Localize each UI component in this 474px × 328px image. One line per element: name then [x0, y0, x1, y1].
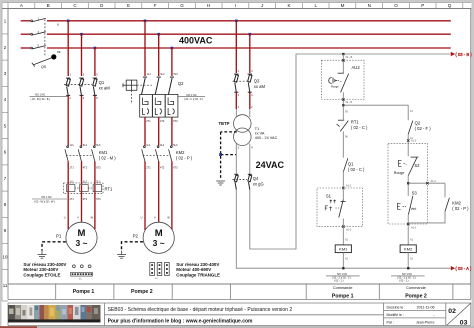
emergency stop AU2 dashed box — [321, 60, 364, 99]
svg-text:4T2: 4T2 — [160, 166, 165, 169]
svg-text:A1-1: A1-1 — [411, 227, 417, 230]
svg-text:Moteur 400-690V: Moteur 400-690V — [176, 267, 211, 272]
pump2 drop wires — [144, 21, 146, 76]
svg-text:( 03 - B ): ( 03 - B ) — [455, 52, 472, 57]
T1 primary drop wires — [235, 21, 237, 73]
T1 secondary wires — [235, 144, 237, 175]
S1 main contact — [342, 188, 344, 200]
svg-text:Sur réseau 230-400V: Sur réseau 230-400V — [176, 262, 219, 267]
svg-text:6T3: 6T3 — [173, 166, 178, 169]
svg-text:L: L — [315, 3, 318, 8]
bus L3 — [21, 47, 31, 49]
junction L3/pump1 — [94, 47, 97, 50]
motor1 note text — [23, 262, 66, 278]
svg-text:SEB03 - Schéma électrique de b: SEB03 - Schéma électrique de base - dépa… — [108, 307, 293, 313]
AU2 NC contact — [338, 73, 349, 92]
svg-text:02 - B: 02 - B — [346, 101, 353, 104]
svg-text:Rouge: Rouge — [331, 85, 339, 89]
svg-text:Jean-Pierre: Jean-Pierre — [416, 320, 435, 324]
motor2 note text — [176, 262, 220, 278]
motor M2 — [143, 222, 174, 253]
svg-text:400 - 24 VAC: 400 - 24 VAC — [255, 136, 278, 140]
svg-text:S3: S3 — [412, 190, 418, 195]
svg-text:( 02 - C ): ( 02 - C ) — [351, 125, 368, 130]
left ruler band — [1, 3, 3, 301]
svg-text:( 02 - F ): ( 02 - F ) — [415, 126, 432, 131]
svg-text:Q4: Q4 — [253, 176, 259, 181]
svg-text:2011-11-06: 2011-11-06 — [417, 305, 435, 309]
svg-text:T1: T1 — [255, 127, 259, 131]
KM1 coil cross-ref table — [337, 273, 347, 276]
pump1 wires Q1 to KM1 — [67, 95, 69, 145]
junction L3/pump2 — [171, 47, 174, 50]
svg-text:2T1: 2T1 — [70, 198, 75, 201]
junction L2/T1 — [249, 33, 252, 36]
contactor KM1 — [65, 146, 95, 162]
pump2 wires KM2 to motor — [144, 161, 146, 230]
terminal blocks motor2 — [150, 263, 169, 276]
svg-text:Q1: Q1 — [99, 80, 105, 85]
svg-text:Pompe 2: Pompe 2 — [405, 293, 427, 299]
bus L1 — [21, 20, 31, 22]
terminal strip motor1 — [71, 272, 93, 276]
title block grid — [8, 303, 471, 326]
svg-text:KM1: KM1 — [339, 247, 348, 252]
junction L1/T1 — [235, 20, 238, 23]
svg-text:Moteur 230-400V: Moteur 230-400V — [23, 267, 58, 272]
ground P1 — [38, 251, 47, 259]
top ruler band — [2, 2, 471, 4]
svg-text:KM1: KM1 — [99, 150, 108, 155]
svg-text:03: 03 — [460, 320, 468, 327]
svg-text:1L1: 1L1 — [146, 144, 151, 147]
svg-text:( 02 - M ): ( 02 - M ) — [99, 156, 117, 161]
P2 earth dashed wire — [122, 242, 144, 251]
svg-text:O: O — [394, 3, 398, 8]
fuse-switch Q3 — [234, 74, 252, 92]
svg-text:A1-2: A1-2 — [411, 140, 417, 143]
svg-text:A1-2: A1-2 — [431, 180, 437, 183]
svg-text:( 02 - C ): ( 02 - C ) — [348, 167, 365, 172]
svg-text:5L3: 5L3 — [174, 73, 179, 76]
svg-text:10: 10 — [3, 254, 8, 259]
svg-text:Pompe 2: Pompe 2 — [131, 289, 153, 295]
junction L1/pump1 — [67, 20, 70, 23]
svg-text:3 ~: 3 ~ — [153, 238, 165, 248]
svg-text:2T1: 2T1 — [70, 166, 75, 169]
svg-text:5L3: 5L3 — [96, 144, 101, 147]
pump1 wires KM1 to RT1 — [67, 161, 69, 184]
svg-text:AU2: AU2 — [352, 65, 361, 70]
wires Q3 to T1 — [235, 92, 237, 109]
svg-text:2T1: 2T1 — [146, 120, 151, 123]
Q2 trip actuator box — [123, 80, 137, 90]
svg-text:1L1: 1L1 — [70, 144, 75, 147]
svg-text:02: 02 — [448, 308, 456, 315]
svg-text:Pompe 1: Pompe 1 — [332, 293, 354, 299]
P1 earth dashed wire — [42, 242, 66, 251]
svg-text:( 03 - A ): ( 03 - A ) — [455, 266, 471, 271]
svg-text:4T2: 4T2 — [83, 198, 88, 201]
branch wire to rung2 — [343, 104, 408, 106]
junction bottom bus KM2 — [407, 267, 409, 269]
KM2 coil cross-ref table — [402, 273, 412, 276]
junction rung1/rung2 — [342, 104, 344, 106]
ground P2 — [117, 251, 126, 259]
svg-text:Couplage TRIANGLE: Couplage TRIANGLE — [176, 272, 220, 277]
svg-text:xx VA: xx VA — [255, 132, 265, 136]
junction S2/KM2 branch — [407, 182, 409, 184]
svg-text:( 02 - W )( 02 - W ): ( 02 - W )( 02 - W ) — [34, 200, 55, 203]
svg-text:3L2: 3L2 — [83, 181, 88, 184]
svg-text:Q: Q — [448, 3, 452, 8]
svg-text:xx aM: xx aM — [254, 84, 266, 89]
svg-text:Dessiné le :: Dessiné le : — [387, 305, 406, 309]
svg-text:A1-1: A1-1 — [346, 229, 352, 232]
motor M1 — [66, 222, 97, 253]
Q1 aux cross-ref table — [31, 94, 51, 101]
TBTP earthing dashed wires — [221, 131, 237, 133]
svg-text:Q2: Q2 — [415, 121, 421, 126]
disconnect switch QS — [31, 18, 52, 66]
svg-text:Q3: Q3 — [254, 79, 260, 84]
AU2 mushroom button icon — [329, 78, 338, 84]
star coupling terminals — [73, 265, 92, 268]
svg-text:RT1: RT1 — [351, 119, 360, 124]
svg-text:Commande: Commande — [406, 286, 426, 290]
junction L2/pump2 — [157, 33, 160, 36]
selector S1 dashed box — [317, 188, 362, 227]
thermal relay RT1 — [64, 183, 104, 194]
svg-text:KM2: KM2 — [176, 150, 185, 155]
svg-text:P1: P1 — [56, 233, 62, 238]
fuse-switch Q4 — [234, 174, 252, 189]
junction bottom bus KM1 — [342, 267, 344, 269]
KM1 aux cross-ref table — [34, 196, 55, 203]
svg-text:S2: S2 — [414, 163, 420, 168]
junction top bus / rung1 — [342, 53, 344, 55]
QS handle knob — [51, 54, 56, 59]
svg-text:I: I — [235, 3, 236, 8]
svg-text:1L1: 1L1 — [70, 181, 75, 184]
svg-text:NO 1 NC: NO 1 NC — [337, 273, 347, 276]
photo strip — [8, 305, 101, 323]
svg-text:400VAC: 400VAC — [179, 36, 213, 46]
svg-text:Pour plus d'information le blo: Pour plus d'information le blog : www.e-… — [108, 318, 253, 324]
contact RT1 aux NC — [337, 120, 349, 131]
pump1 wires RT1 to motor — [67, 192, 69, 230]
svg-text:5L3: 5L3 — [96, 181, 101, 184]
svg-text:Commande: Commande — [333, 286, 353, 290]
svg-text:xx aM: xx aM — [99, 86, 111, 91]
Q2 trip block — [140, 95, 178, 118]
svg-text:Q2: Q2 — [178, 81, 184, 86]
svg-text:Modifié le :: Modifié le : — [387, 313, 404, 317]
contact KM2 aux NO (latch) — [444, 183, 446, 197]
transformer T1 — [234, 115, 252, 133]
svg-text:( 02 - B )( 02 - B ): ( 02 - B )( 02 - B ) — [31, 98, 51, 101]
svg-text:2T1: 2T1 — [146, 166, 151, 169]
svg-text:( 02 - P ): ( 02 - P ) — [452, 206, 469, 211]
svg-text:© www.e-genieclimatique.com: © www.e-genieclimatique.com — [64, 319, 99, 323]
svg-text:( 02 - 1 ): ( 02 - 1 ) — [399, 280, 409, 283]
buttons S2/S3 dashed box — [388, 143, 427, 224]
svg-text:( 02 - 1 ): ( 02 - 1 ) — [334, 280, 344, 283]
svg-text:Rouge: Rouge — [394, 171, 405, 175]
svg-text:S1: S1 — [326, 194, 332, 199]
svg-text:QS: QS — [41, 65, 47, 69]
junction TBTP — [219, 153, 222, 156]
svg-text:3 ~: 3 ~ — [75, 238, 87, 248]
svg-text:N: N — [57, 23, 59, 27]
svg-text:6T3: 6T3 — [173, 120, 178, 123]
svg-text:6T3: 6T3 — [96, 198, 101, 201]
pump2 wires Q2 to KM2 — [144, 117, 146, 146]
svg-text:24VAC: 24VAC — [256, 160, 285, 170]
svg-text:3L2: 3L2 — [160, 144, 165, 147]
wire phase to top bus — [250, 54, 451, 249]
svg-text:4T2: 4T2 — [160, 120, 165, 123]
svg-text:4T2: 4T2 — [83, 166, 88, 169]
Q2 aux cross-ref table — [184, 94, 203, 101]
rung1 wire top — [342, 54, 344, 73]
ground TBTP — [216, 181, 225, 185]
red artifact bottom-left — [0, 326, 37, 328]
svg-text:PE: PE — [57, 50, 61, 54]
wire neutral to bottom bus — [236, 190, 450, 269]
svg-text:NO 1 NC: NO 1 NC — [402, 273, 412, 276]
svg-text:xx gG: xx gG — [253, 182, 264, 187]
svg-text:( 02 - P ): ( 02 - P ) — [176, 156, 193, 161]
bus L2 — [21, 33, 31, 35]
arrow ref (03-B) — [451, 52, 455, 56]
svg-text:E: E — [127, 3, 130, 8]
svg-text:U: U — [141, 216, 143, 219]
svg-text:02 - B: 02 - B — [346, 56, 353, 59]
svg-text:NO 1 NC: NO 1 NC — [187, 94, 197, 97]
junction X marks AU2 — [342, 59, 345, 101]
svg-text:( 02 - F )( 02 - F ): ( 02 - F )( 02 - F ) — [184, 98, 203, 101]
svg-text:1L1: 1L1 — [147, 73, 152, 76]
svg-text:F: F — [154, 3, 157, 8]
svg-text:M: M — [341, 3, 345, 8]
svg-text:TBTP: TBTP — [219, 121, 230, 126]
contactor KM2 — [142, 146, 173, 162]
svg-text:P2: P2 — [133, 233, 139, 238]
page bottom edge — [0, 326, 474, 328]
T1 label — [255, 127, 278, 140]
svg-text:U: U — [64, 216, 66, 219]
svg-text:11: 11 — [3, 283, 8, 288]
motor breaker Q2 contacts — [142, 77, 175, 95]
contact Q2 aux NO — [408, 121, 413, 134]
QS mechanical link (dashed) — [44, 20, 46, 56]
junction L2/pump1 — [80, 33, 83, 36]
svg-text:RT1: RT1 — [105, 187, 114, 192]
svg-text:Vert: Vert — [411, 207, 417, 211]
svg-text:J: J — [261, 3, 263, 8]
rung2 top wire — [407, 105, 409, 120]
fuse-switch Q1 — [66, 78, 97, 95]
svg-text:N: N — [368, 3, 371, 8]
svg-text:KM2: KM2 — [452, 200, 461, 205]
contact Q1 aux NO — [343, 158, 348, 171]
svg-text:Couplage ETOILE: Couplage ETOILE — [23, 272, 60, 277]
svg-text:P: P — [421, 3, 424, 8]
drawn-by block — [387, 305, 436, 324]
svg-text:G: G — [180, 3, 184, 8]
svg-text:3L2: 3L2 — [160, 73, 165, 76]
svg-text:KM2: KM2 — [404, 247, 413, 252]
button S2 NC — [407, 143, 409, 156]
page number cell — [447, 303, 471, 325]
svg-text:Par :: Par : — [387, 320, 395, 324]
svg-text:H: H — [207, 3, 210, 8]
label row grid — [8, 284, 471, 299]
svg-text:Q1: Q1 — [348, 161, 354, 166]
svg-text:NO 1 NC: NO 1 NC — [35, 94, 45, 97]
svg-text:B: B — [47, 3, 50, 8]
svg-text:Sur réseau 230-400V: Sur réseau 230-400V — [23, 262, 66, 267]
svg-text:Pompe 1: Pompe 1 — [73, 289, 95, 295]
junction L1/pump2 — [144, 20, 147, 23]
svg-text:3L2: 3L2 — [83, 144, 88, 147]
svg-text:A1-2: A1-2 — [346, 185, 352, 188]
svg-text:5L3: 5L3 — [173, 144, 178, 147]
S1 switch symbol — [325, 200, 336, 211]
svg-text:6T3: 6T3 — [96, 166, 101, 169]
arrow ref (03-A) — [451, 266, 455, 270]
pump1 drop wires — [67, 21, 69, 76]
